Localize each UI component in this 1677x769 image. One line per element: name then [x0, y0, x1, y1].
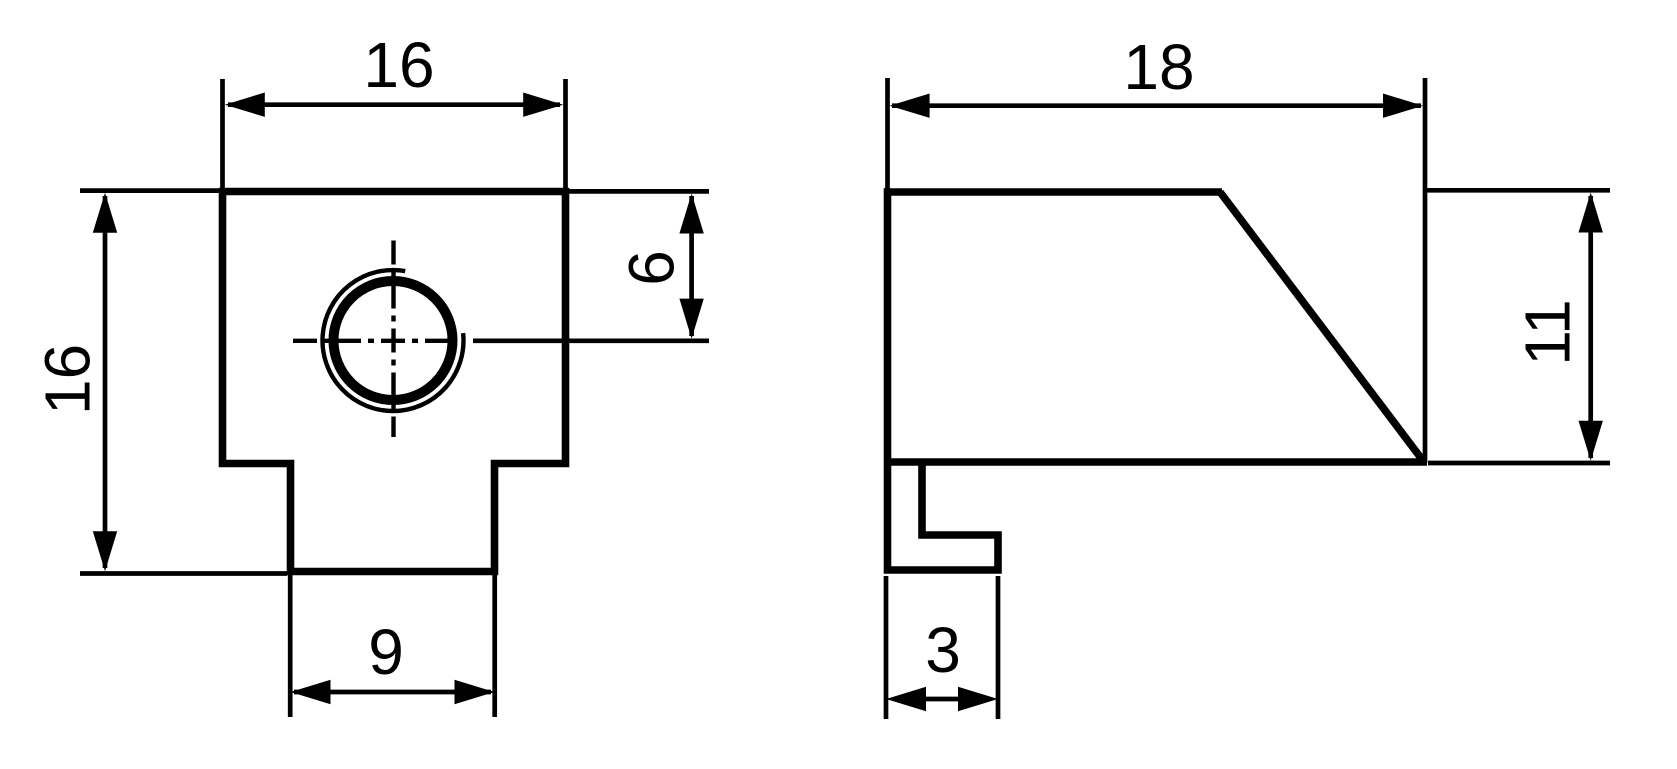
extension line top-left (16 width dim)	[220, 79, 225, 190]
extension line bottom-right (9 dim)	[492, 575, 497, 717]
dimension line 6	[689, 196, 694, 336]
arrow right (top 16)	[523, 93, 563, 117]
svg-text:6: 6	[615, 250, 687, 286]
arrow right (9)	[455, 680, 495, 704]
svg-text:16: 16	[363, 29, 434, 101]
arrow down (left 16)	[93, 531, 117, 571]
side view body bottom edge	[884, 458, 1427, 466]
extension line bottom-left (9 dim)	[288, 575, 293, 717]
dimension line 16 (left)	[103, 196, 108, 568]
svg-text:18: 18	[1123, 31, 1194, 103]
side view left edge	[884, 188, 892, 573]
arrow down (6)	[679, 299, 703, 339]
extension line bottom (11 dim)	[1428, 461, 1610, 466]
extension line left-bottom (16 height dim)	[80, 571, 287, 576]
svg-text:3: 3	[925, 614, 961, 686]
svg-text:11: 11	[1511, 299, 1583, 365]
side view chamfer diagonal	[1220, 192, 1424, 462]
horizontal centerline	[292, 339, 452, 343]
arrow left (3)	[886, 687, 926, 711]
dimension line 9	[294, 690, 491, 695]
arrow left (18)	[890, 94, 930, 118]
dimension line 16 (top)	[228, 102, 560, 107]
arrow up (left 16)	[93, 193, 117, 233]
dimension line 3 (shaft)	[920, 697, 964, 702]
svg-text:16: 16	[31, 344, 103, 415]
vertical centerline	[391, 240, 395, 437]
tapped hole (thick circle)	[334, 281, 453, 400]
extension line right (18 dim)	[1423, 78, 1428, 463]
side view foot notch	[922, 462, 998, 574]
thread arc (thin 3/4 circle)	[322, 270, 463, 411]
extension line left (18 dim)	[885, 78, 890, 192]
extension line right (3 dim)	[996, 576, 1001, 719]
arrow left (9)	[291, 680, 331, 704]
dimension line 18	[892, 103, 1421, 108]
side view foot bottom edge	[884, 566, 1002, 574]
extension line top (11 dim)	[1425, 188, 1610, 193]
extension line hole-center (6 dim)	[473, 338, 709, 343]
arrow down (11)	[1579, 421, 1603, 461]
dimension line 11	[1588, 196, 1593, 458]
arrow up (6)	[679, 194, 703, 234]
extension line left (3 dim)	[884, 576, 889, 719]
part outline (front view)	[223, 192, 566, 572]
side view top edge	[884, 188, 1222, 196]
extension line right-top (6 dim)	[569, 189, 709, 194]
arrow up (11)	[1579, 193, 1603, 233]
svg-text:9: 9	[368, 616, 404, 688]
extension line top-right (16 width dim)	[563, 79, 568, 190]
arrow right (18)	[1383, 94, 1423, 118]
arrow right (3)	[958, 687, 998, 711]
arrow left (top 16)	[225, 93, 265, 117]
extension line left-top (16 height dim)	[80, 188, 219, 193]
